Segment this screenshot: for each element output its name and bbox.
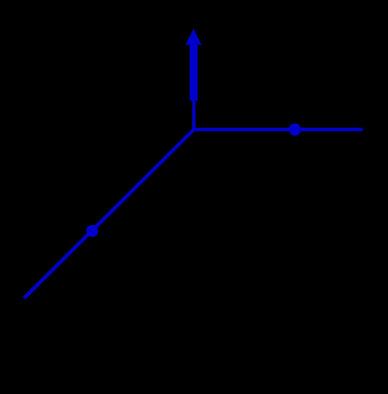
wire: thin vertical segment from junction up to arrow shaft [192,100,195,130]
arrowhead (triangle pointing up) [185,29,201,45]
node dot on horizontal ray [289,123,301,135]
arrow shaft (thick vertical bar) [190,45,198,101]
wire: horizontal ray from junction to the right [194,128,363,132]
wire: diagonal ray from junction to lower-left [24,130,194,299]
node dot on diagonal ray [86,225,98,237]
